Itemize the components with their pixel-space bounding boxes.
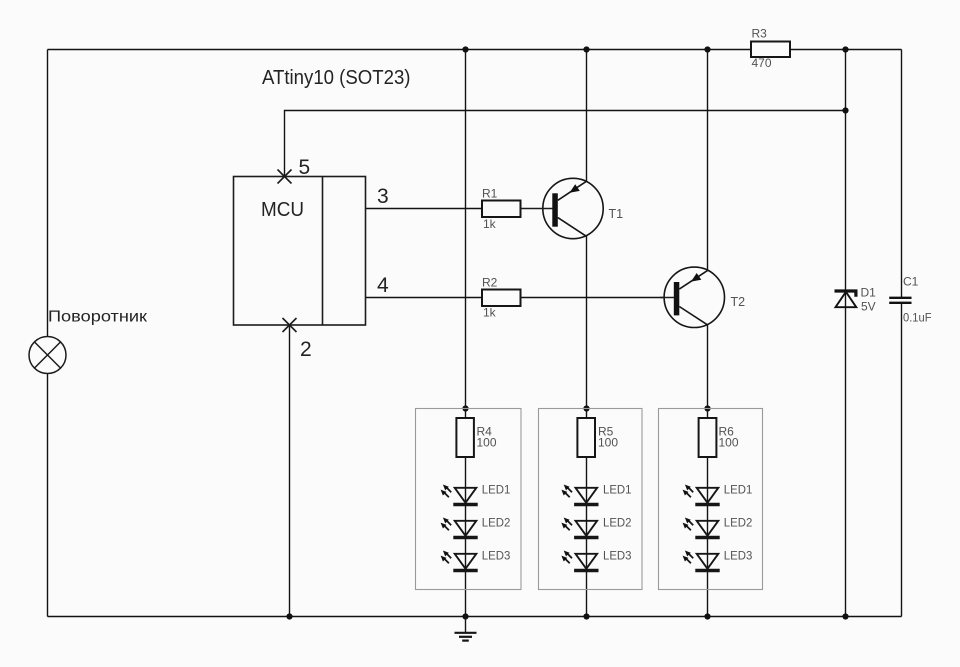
svg-text:1k: 1k: [483, 306, 497, 320]
resistor R6: [699, 418, 717, 457]
svg-text:T2: T2: [731, 295, 746, 309]
LED module box 1: [416, 409, 522, 590]
lamp Поворотник: [29, 337, 66, 374]
wire VCC feed to MCU pin 5: [285, 111, 846, 177]
wire R2 to T2 base: [521, 297, 677, 299]
MCU pin 2 mark: [283, 318, 297, 332]
transistor T1: [521, 178, 604, 238]
zener diode D1: [835, 291, 858, 307]
junction top rail x465: [462, 46, 468, 52]
svg-text:T1: T1: [609, 207, 624, 221]
junction top rail x707: [704, 46, 710, 52]
svg-text:LED1: LED1: [482, 483, 511, 497]
resistor R1: [482, 201, 521, 218]
junction bottom rail x586: [583, 613, 589, 619]
svg-text:LED1: LED1: [724, 483, 753, 497]
wire LED string 3 vertical: [707, 50, 709, 617]
capacitor C1: [889, 298, 911, 303]
wire bottom rail: [48, 616, 902, 618]
wire top rail: [48, 49, 902, 51]
LED3 string2: [561, 551, 598, 571]
wire MCU pin 3 to R1: [366, 208, 483, 210]
junction LED box 3 top: [704, 405, 710, 411]
svg-text:5: 5: [299, 156, 311, 179]
svg-text:LED2: LED2: [724, 516, 753, 530]
svg-text:LED2: LED2: [603, 516, 632, 530]
junction top rail x845: [842, 46, 848, 52]
svg-text:R2: R2: [482, 276, 498, 290]
wire C1 branch upper: [901, 50, 903, 298]
svg-text:5V: 5V: [861, 300, 876, 314]
LED2 string1: [441, 518, 478, 538]
resistor R3: [751, 42, 790, 58]
svg-text:MCU: MCU: [261, 199, 304, 221]
junction bottom rail x707: [704, 613, 710, 619]
svg-text:R3: R3: [752, 27, 768, 41]
junction bottom rail x845: [842, 613, 848, 619]
wire C1 branch lower: [901, 304, 903, 617]
wire MCU pin 2 to ground rail: [289, 325, 291, 617]
svg-text:D1: D1: [861, 286, 877, 300]
LED2 string2: [561, 518, 598, 538]
junction LED box 2 top: [583, 405, 589, 411]
junction LED box 1 top: [462, 405, 468, 411]
svg-text:LED3: LED3: [482, 549, 511, 563]
svg-text:0.1uF: 0.1uF: [903, 311, 932, 325]
junction pin5 feed at D1 branch: [842, 107, 848, 113]
MCU pin 5 mark: [278, 170, 292, 184]
svg-text:100: 100: [598, 436, 618, 450]
wire left branch lower: [47, 374, 49, 617]
junction bottom rail x465: [462, 613, 468, 619]
wire MCU pin 4 to R2: [366, 297, 483, 299]
LED1 string2: [561, 485, 598, 505]
LED3 string1: [441, 551, 478, 571]
wire LED string 2 vertical: [586, 50, 588, 617]
LED1 string1: [441, 485, 478, 505]
resistor R4: [456, 418, 474, 457]
svg-text:3: 3: [377, 185, 389, 208]
svg-text:LED3: LED3: [603, 549, 632, 563]
wire left branch upper: [47, 50, 49, 338]
svg-text:LED3: LED3: [724, 549, 753, 563]
svg-text:C1: C1: [903, 275, 919, 289]
svg-text:4: 4: [377, 274, 389, 297]
LED3 string3: [683, 551, 720, 571]
svg-text:LED1: LED1: [603, 483, 632, 497]
LED2 string3: [683, 518, 720, 538]
wire LED string 1 vertical: [465, 50, 467, 617]
transistor T2: [660, 267, 725, 327]
svg-text:ATtiny10 (SOT23): ATtiny10 (SOT23): [262, 67, 411, 89]
LED module box 3: [659, 409, 763, 590]
svg-text:1k: 1k: [483, 217, 497, 231]
svg-text:LED2: LED2: [482, 516, 511, 530]
svg-text:470: 470: [752, 56, 772, 70]
svg-text:100: 100: [477, 436, 497, 450]
junction top rail x586: [583, 46, 589, 52]
MCU U1 box: [234, 177, 366, 326]
svg-text:100: 100: [719, 436, 739, 450]
svg-text:Поворотник: Поворотник: [48, 309, 148, 326]
LED module box 2: [539, 409, 643, 590]
wire D1 branch: [845, 50, 847, 617]
junction bottom rail x289: [286, 613, 292, 619]
resistor R2: [482, 290, 521, 307]
resistor R5: [577, 418, 595, 457]
ground: [455, 617, 477, 641]
svg-text:R1: R1: [482, 187, 498, 201]
LED1 string3: [683, 485, 720, 505]
svg-text:2: 2: [300, 338, 312, 361]
